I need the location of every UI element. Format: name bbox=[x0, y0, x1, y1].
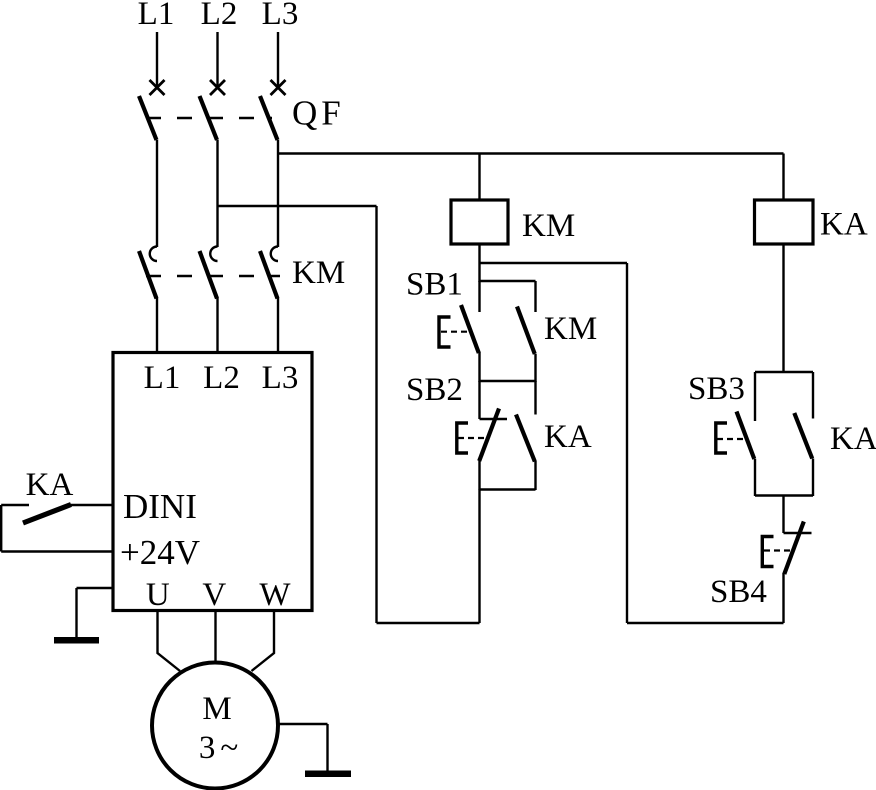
ground (motor) bbox=[305, 771, 351, 778]
wire SB2 KA parallel join bbox=[480, 488, 536, 490]
wire KM coil to junction bbox=[478, 244, 480, 282]
svg-text:M: M bbox=[202, 691, 231, 727]
wire motor lead U bbox=[158, 611, 181, 671]
wire L2 QF to KM contact bbox=[216, 140, 218, 247]
wire SB1 KM parallel join bbox=[480, 380, 536, 382]
pushbutton SB1 actuator bbox=[439, 317, 451, 347]
wire L3 KM to inverter bbox=[277, 298, 279, 352]
wire KA coil feed bbox=[782, 154, 784, 201]
relay contact KA blade (left) bbox=[23, 505, 71, 524]
wire control top rail from L3 bbox=[278, 152, 784, 154]
contactor KM main pole 1 blade bbox=[139, 251, 157, 299]
wire SB3 KA parallel split top bbox=[755, 371, 813, 373]
wire L1 KM to inverter bbox=[156, 298, 158, 352]
terminal X mark L3 bbox=[271, 80, 286, 95]
wire control left rail vertical bbox=[375, 206, 377, 623]
svg-text:KA: KA bbox=[830, 421, 876, 457]
contactor KM main pole 3 blade bbox=[260, 251, 278, 299]
wire control bottom left connector bbox=[377, 622, 480, 624]
breaker QF pole 2 blade bbox=[200, 96, 218, 140]
svg-text:L2: L2 bbox=[201, 0, 238, 32]
wire inverter ground lead horizontal bbox=[77, 587, 114, 589]
terminal X mark L2 bbox=[210, 80, 225, 95]
svg-text:KA: KA bbox=[820, 207, 868, 243]
motor M circle bbox=[152, 663, 278, 789]
contact KM aux blade bbox=[517, 307, 535, 355]
wire KM branch bottom drop bbox=[478, 490, 480, 624]
svg-text:U: U bbox=[146, 577, 170, 613]
wire DINI input left lead bbox=[1, 504, 29, 506]
svg-text:L3: L3 bbox=[262, 360, 299, 396]
svg-text:W: W bbox=[259, 577, 291, 613]
svg-text:L1: L1 bbox=[138, 0, 175, 32]
wire SB3 upper lead bbox=[754, 372, 756, 421]
pushbutton SB2 actuator link bbox=[458, 437, 487, 439]
wire motor ground horizontal bbox=[278, 723, 328, 725]
wire L1 incoming drop bbox=[156, 32, 158, 86]
wire KA coil to SB3 block bbox=[782, 244, 784, 373]
wire SB1 upper lead bbox=[478, 281, 480, 312]
contact KA aux blade bbox=[516, 415, 535, 462]
wire KA aux2 lower lead bbox=[812, 459, 814, 497]
coil KM bbox=[451, 200, 508, 244]
breaker QF linkage dashed tie bbox=[146, 117, 272, 119]
wire SB1 KM parallel split top bbox=[480, 280, 536, 282]
svg-text:SB2: SB2 bbox=[406, 372, 463, 408]
svg-text:KM: KM bbox=[544, 311, 597, 347]
pushbutton SB1 actuator link bbox=[441, 331, 470, 333]
contactor KM main pole 2 fixed contact arc bbox=[210, 247, 217, 262]
wire control left rail tap from L2 bbox=[218, 205, 377, 207]
pushbutton SB3 actuator bbox=[716, 423, 727, 453]
wire junction A to right branch bbox=[480, 262, 628, 264]
wire +24V return bbox=[1, 550, 113, 552]
svg-text:KM: KM bbox=[522, 208, 575, 244]
svg-text:L2: L2 bbox=[203, 360, 240, 396]
wire L3 QF to KM contact bbox=[277, 140, 279, 247]
wire SB4 lower lead bbox=[782, 573, 784, 623]
wire L2 incoming drop bbox=[216, 32, 218, 86]
wire motor lead W bbox=[252, 611, 275, 671]
wire SB1 lower lead bbox=[478, 352, 480, 382]
wire KA contact left vertical bbox=[0, 505, 2, 552]
wire KA aux upper lead bbox=[534, 381, 536, 415]
ground (inverter) bbox=[54, 637, 99, 644]
svg-text:3~: 3~ bbox=[199, 730, 243, 766]
pushbutton SB1 blade bbox=[461, 305, 479, 353]
contactor KM main pole 1 fixed contact arc bbox=[150, 247, 157, 262]
wire motor lead V bbox=[214, 611, 216, 663]
pushbutton SB2 fixed tick bbox=[480, 418, 508, 420]
wire SB2 upper lead bbox=[478, 381, 480, 419]
svg-text:L3: L3 bbox=[262, 0, 299, 32]
wire L1 QF to KM contact bbox=[156, 140, 158, 247]
svg-text:SB1: SB1 bbox=[406, 267, 463, 303]
pushbutton SB3 blade bbox=[737, 412, 755, 460]
wire KM aux lower lead bbox=[534, 354, 536, 382]
svg-text:V: V bbox=[202, 577, 226, 613]
pushbutton SB4 actuator bbox=[762, 537, 773, 567]
pushbutton SB4 fixed tick bbox=[784, 532, 812, 534]
pushbutton SB3 actuator link bbox=[717, 438, 747, 440]
wire KA aux lower lead bbox=[534, 461, 536, 490]
inverter U1 DINI box bbox=[113, 353, 312, 611]
svg-text:KA: KA bbox=[544, 419, 592, 455]
wire bottom right connector bbox=[627, 622, 784, 624]
contactor KM main pole 2 blade bbox=[200, 251, 218, 299]
wire SB3 lower lead bbox=[754, 459, 756, 496]
svg-text:KM: KM bbox=[292, 255, 345, 291]
wire DINI input right lead bbox=[70, 504, 113, 506]
wire KM aux upper lead bbox=[534, 281, 536, 312]
wire KA aux2 upper lead bbox=[812, 372, 814, 419]
contactor KM main pole 3 fixed contact arc bbox=[271, 247, 278, 262]
terminal X mark L1 bbox=[150, 80, 165, 95]
wire SB4 upper lead bbox=[782, 496, 784, 534]
wire L3 incoming drop bbox=[277, 32, 279, 86]
wire SB2 lower lead bbox=[478, 460, 480, 490]
wire motor ground vertical bbox=[326, 724, 328, 771]
pushbutton SB4 actuator link bbox=[764, 549, 791, 551]
wire SB3 KA parallel join bbox=[755, 494, 813, 496]
wire inverter ground lead vertical bbox=[75, 588, 77, 638]
svg-text:QF: QF bbox=[292, 94, 345, 133]
wire KM coil feed bbox=[478, 154, 480, 201]
svg-text:L1: L1 bbox=[144, 360, 181, 396]
svg-text:KA: KA bbox=[26, 467, 74, 503]
wire right branch vertical bbox=[626, 263, 628, 623]
wire L2 KM to inverter bbox=[216, 298, 218, 352]
pushbutton SB4 blade bbox=[784, 522, 804, 575]
breaker QF pole 3 blade bbox=[260, 96, 278, 140]
contact KA aux2 blade bbox=[794, 413, 812, 459]
svg-text:SB3: SB3 bbox=[688, 371, 745, 407]
svg-text:SB4: SB4 bbox=[710, 574, 767, 610]
coil KA bbox=[755, 200, 814, 244]
contactor KM main linkage dashed tie bbox=[146, 275, 280, 277]
breaker QF pole 1 blade bbox=[139, 96, 157, 140]
svg-text:+24V: +24V bbox=[120, 533, 200, 572]
svg-text:DINI: DINI bbox=[123, 487, 197, 526]
pushbutton SB2 actuator bbox=[457, 423, 468, 453]
pushbutton SB2 blade bbox=[479, 409, 499, 462]
